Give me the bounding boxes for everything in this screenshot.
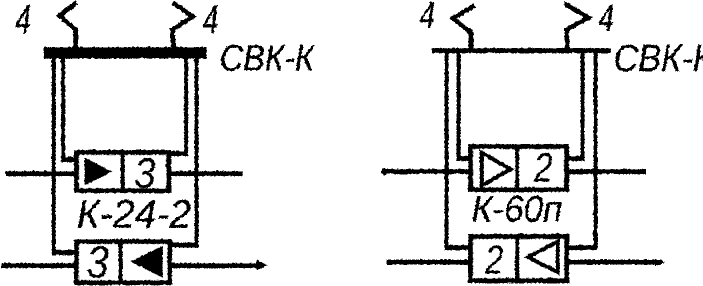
amplifier box U1 К-24-2 (forward amp, channel 3)	[76, 150, 168, 192]
label 4 (right antenna input, left unit)	[202, 0, 218, 42]
svg-text:3: 3	[86, 237, 108, 286]
svg-text:4: 4	[202, 0, 218, 42]
wire bottom feed left segment (left unit)	[1, 263, 76, 268]
wire bottom feed right segment (right unit)	[566, 258, 665, 265]
svg-text:3: 3	[133, 148, 155, 196]
wire top feed left segment (right unit)	[380, 167, 468, 174]
antenna down-lead arrow (left, left unit)	[59, 2, 76, 49]
amplifier box U2 К-24-2 (return amp, channel 3)	[76, 239, 169, 284]
shield wire outer-left (left unit)	[53, 58, 74, 252]
svg-text:СВК-К: СВК-К	[219, 37, 316, 78]
shield wire inner-left (left unit)	[63, 58, 76, 159]
amplifier box U4 К-60п (return amp, channel 2)	[470, 234, 566, 282]
antenna down-lead arrow (left, right unit)	[453, 5, 475, 50]
wire top feed right segment (right unit)	[566, 169, 645, 174]
collector crossarm bar СВК-К (right unit, thin)	[431, 48, 610, 53]
label СВК-К (right unit, clipped)	[613, 36, 703, 79]
wire top feed right segment (left unit)	[170, 171, 242, 176]
shield wire outer-right (left unit)	[170, 58, 196, 245]
antenna down-lead arrow (right, left unit)	[172, 2, 192, 49]
svg-text:СВК-К: СВК-К	[613, 36, 703, 79]
shield wire inner-right (right unit)	[567, 52, 582, 158]
svg-text:4: 4	[598, 0, 613, 38]
label К-60п	[471, 187, 562, 229]
antenna down-lead arrow (right, right unit)	[564, 3, 588, 48]
label 3 (channel) in U1	[133, 148, 155, 196]
label 3 (channel) in U2	[86, 237, 108, 286]
wire bottom feed left segment (right unit)	[386, 259, 470, 264]
label К-24-2	[76, 192, 191, 236]
label СВК-К (left unit)	[219, 37, 316, 78]
shield wire inner-right (left unit)	[170, 58, 186, 153]
label 4 (right antenna input, right unit)	[598, 0, 613, 38]
label 4 (left antenna input, left unit)	[15, 0, 31, 42]
svg-text:4: 4	[15, 0, 31, 42]
svg-text:4: 4	[419, 0, 434, 35]
svg-text:К-24-2: К-24-2	[76, 192, 191, 236]
amplifier box U3 К-60п (forward amp, channel 2)	[470, 144, 566, 191]
svg-text:2: 2	[484, 235, 503, 281]
shield wire outer-right (right unit)	[567, 52, 595, 247]
label 4 (left antenna input, right unit)	[419, 0, 434, 35]
svg-text:2: 2	[533, 143, 552, 190]
label 2 (channel) in U3	[533, 143, 552, 190]
collector crossarm bar СВК-К (left unit, thick)	[43, 47, 206, 59]
svg-text:К-60п: К-60п	[471, 187, 562, 229]
wire top feed left segment (left unit)	[5, 171, 74, 176]
shield wire inner-left (right unit)	[458, 52, 469, 158]
shield wire outer-left (right unit)	[446, 52, 468, 247]
wire bottom feed right segment with arrow (left unit)	[169, 260, 267, 270]
label 2 (channel) in U4	[484, 235, 503, 281]
